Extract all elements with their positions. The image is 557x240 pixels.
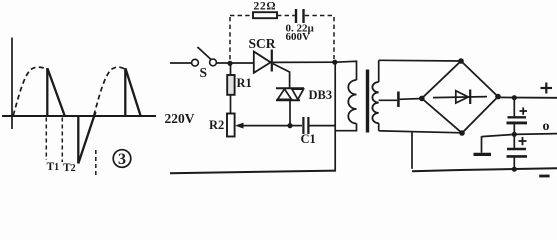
svg-text:T2: T2 (63, 162, 76, 174)
svg-text:3: 3 (118, 151, 126, 168)
svg-text:o: o (543, 119, 550, 134)
svg-text:DB3: DB3 (309, 88, 333, 102)
svg-text:SCR: SCR (249, 36, 276, 51)
svg-text:R2: R2 (209, 118, 224, 132)
svg-text:R1: R1 (237, 76, 252, 90)
svg-text:220V: 220V (165, 111, 195, 126)
svg-text:S: S (200, 65, 208, 80)
svg-text:22Ω: 22Ω (254, 1, 277, 13)
svg-text:600V: 600V (286, 31, 311, 43)
svg-text:C1: C1 (301, 132, 316, 146)
svg-text:T1: T1 (47, 161, 60, 173)
